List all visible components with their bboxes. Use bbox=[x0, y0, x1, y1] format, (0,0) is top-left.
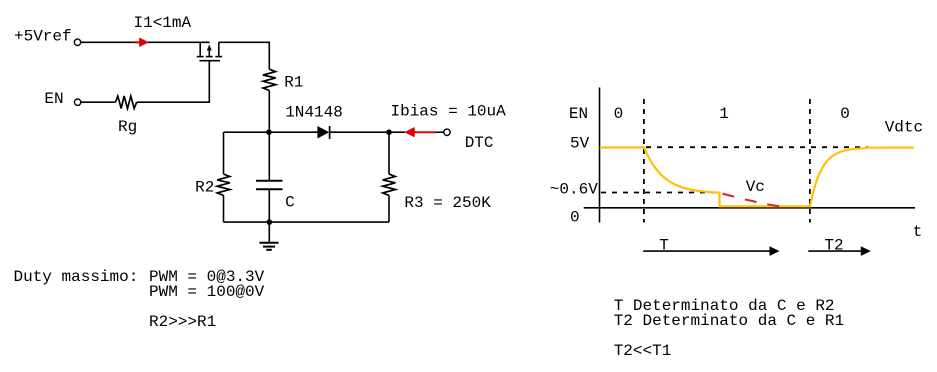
arrow T bbox=[643, 246, 779, 256]
wire node A to R2 bbox=[223, 132, 225, 174]
svg-text:~0.6V: ~0.6V bbox=[550, 180, 598, 198]
svg-text:Duty massimo:: Duty massimo: bbox=[14, 268, 139, 286]
dashed divider t2 bbox=[809, 99, 811, 223]
dashed level 0.6V bbox=[601, 192, 718, 194]
wire diode to node B bbox=[330, 131, 389, 133]
svg-text:0: 0 bbox=[840, 105, 850, 123]
terminal +5Vref bbox=[74, 39, 80, 45]
capacitor C bbox=[256, 181, 283, 190]
svg-text:T: T bbox=[659, 237, 669, 255]
svg-text:PWM = 100@0V: PWM = 100@0V bbox=[149, 283, 265, 301]
svg-text:Ibias = 10uA: Ibias = 10uA bbox=[391, 103, 507, 121]
resistor R2 bbox=[217, 174, 230, 195]
resistor Rg bbox=[115, 96, 136, 109]
terminal DTC bbox=[444, 129, 450, 135]
ground rail wire bbox=[224, 221, 390, 223]
svg-text:C: C bbox=[285, 193, 295, 211]
terminal EN bbox=[74, 99, 80, 105]
wire EN to Rg bbox=[81, 101, 115, 103]
wire Rg to PMOS gate bbox=[137, 61, 210, 102]
axis vertical bbox=[599, 88, 601, 223]
wire R3 to ground rail bbox=[388, 195, 390, 222]
wire capacitor C to ground rail bbox=[268, 190, 270, 222]
resistor R3 bbox=[383, 174, 396, 195]
wire +5Vref to PMOS source/bulk bbox=[81, 41, 210, 43]
svg-text:t: t bbox=[913, 223, 923, 241]
svg-text:0: 0 bbox=[614, 105, 624, 123]
ground bbox=[260, 222, 279, 250]
wire node B to Ibias arrow bbox=[389, 131, 405, 133]
svg-text:Vdtc: Vdtc bbox=[885, 119, 923, 137]
wire Ibias arrow to DTC terminal bbox=[436, 131, 444, 133]
curve Vc red dashed bbox=[723, 194, 781, 207]
svg-text:0: 0 bbox=[570, 209, 580, 227]
node A junction bbox=[266, 129, 272, 135]
current arrow I1 bbox=[135, 38, 149, 48]
svg-text:R3 = 250K: R3 = 250K bbox=[404, 194, 491, 212]
arrow T2 bbox=[808, 246, 871, 256]
svg-text:R2>>>R1: R2>>>R1 bbox=[149, 313, 216, 331]
svg-text:R1: R1 bbox=[284, 74, 303, 92]
dashed level 5V bbox=[646, 146, 868, 148]
svg-text:Rg: Rg bbox=[118, 118, 137, 136]
svg-text:1N4148: 1N4148 bbox=[285, 103, 343, 121]
node C junction bbox=[267, 219, 273, 225]
svg-text:T2 Determinato da C e R1: T2 Determinato da C e R1 bbox=[614, 312, 844, 330]
node B junction bbox=[386, 129, 392, 135]
diode D1 1N4148 bbox=[317, 126, 329, 139]
wire node A horizontal rail bbox=[224, 131, 318, 133]
svg-text:I1<1mA: I1<1mA bbox=[134, 14, 192, 32]
svg-text:R2: R2 bbox=[195, 179, 214, 197]
svg-text:EN: EN bbox=[569, 105, 588, 123]
resistor R1 bbox=[263, 69, 276, 90]
axis horizontal t bbox=[584, 207, 915, 209]
svg-text:5V: 5V bbox=[570, 135, 590, 153]
svg-text:1: 1 bbox=[719, 105, 729, 123]
wire node A to capacitor C bbox=[268, 132, 270, 180]
svg-text:DTC: DTC bbox=[465, 134, 494, 152]
wire R2 to ground rail bbox=[223, 195, 225, 222]
wire PMOS drain to R1 bbox=[219, 42, 269, 69]
wire R1 to node A bbox=[268, 91, 270, 133]
current arrow Ibias bbox=[404, 127, 435, 137]
svg-text:Vc: Vc bbox=[746, 178, 765, 196]
svg-text:T2: T2 bbox=[824, 237, 843, 255]
svg-text:T2<<T1: T2<<T1 bbox=[614, 342, 672, 360]
svg-text:+5Vref: +5Vref bbox=[14, 27, 72, 45]
curve Vdtc orange bbox=[600, 148, 914, 207]
wire node B to R3 bbox=[388, 132, 390, 174]
svg-text:EN: EN bbox=[44, 90, 63, 108]
transistor Q1 PMOS bbox=[197, 42, 222, 60]
dashed divider t1 bbox=[643, 99, 645, 223]
